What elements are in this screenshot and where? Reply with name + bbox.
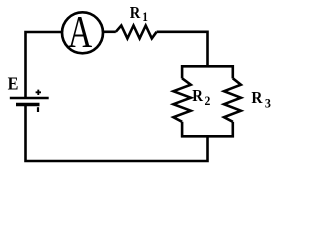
resistor R2 bbox=[173, 78, 190, 122]
wire R3 branch bottom bbox=[232, 122, 235, 138]
svg-text:R1: R1 bbox=[130, 4, 148, 24]
battery E positive plate bbox=[10, 97, 49, 100]
svg-text:R3: R3 bbox=[251, 89, 271, 110]
wire ammeter to resistor R1 bbox=[104, 30, 116, 33]
wire parallel block down to bottom rail bbox=[120, 135, 208, 161]
wire R1 to top-right corner down to parallel block bbox=[157, 32, 208, 68]
wire parallel block top bar bbox=[181, 65, 234, 68]
battery plus sign bbox=[36, 90, 41, 95]
wire R2 branch top bbox=[181, 65, 184, 78]
ammeter A bbox=[62, 12, 103, 53]
battery minus tick bbox=[37, 107, 39, 112]
battery E negative plate bbox=[16, 103, 40, 107]
wire bottom rail to battery - terminal bbox=[26, 105, 121, 162]
resistor R1 bbox=[116, 26, 157, 39]
wire parallel block bottom bar bbox=[181, 135, 234, 138]
svg-text:R2: R2 bbox=[192, 88, 210, 109]
resistor R3 bbox=[224, 78, 241, 122]
svg-text:A: A bbox=[68, 6, 92, 57]
wire R3 branch top bbox=[232, 65, 235, 78]
svg-text:E: E bbox=[8, 74, 19, 94]
wire battery + terminal up and across to ammeter bbox=[26, 32, 62, 98]
wire R2 branch bottom bbox=[181, 122, 184, 138]
